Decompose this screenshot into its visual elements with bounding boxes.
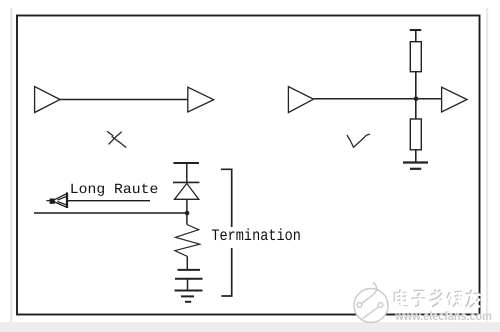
- wire resistor to capacitor: [186, 256, 188, 270]
- watermark logo: [354, 283, 388, 323]
- buffer U2 (top-left receiver): [188, 87, 214, 112]
- watermark CJK text fa: [430, 290, 444, 308]
- diode D1 triangle: [175, 183, 199, 199]
- ground (right circuit): [403, 163, 428, 169]
- buffer U3 (top-right driver): [288, 87, 313, 113]
- diode D1 cathode bar: [173, 181, 199, 183]
- capacitor C1 bottom plate: [175, 278, 203, 280]
- annotation arrow: [46, 192, 67, 208]
- svg-text:Long Raute: Long Raute: [70, 182, 159, 198]
- resistor RT zigzag: [175, 225, 200, 257]
- wire node to resistor: [186, 213, 188, 225]
- wire capacitor to ground: [187, 279, 189, 291]
- wire U1 to U2: [60, 99, 188, 101]
- node junction dot (termination): [185, 211, 190, 216]
- watermark CJK text you: [466, 290, 481, 309]
- watermark CJK text dian: [395, 289, 410, 307]
- wire R1 to node: [415, 72, 417, 99]
- watermark CJK text zi: [412, 291, 427, 308]
- right page edge line: [486, 8, 488, 322]
- termination bracket: [221, 169, 232, 296]
- svg-text:Termination: Termination: [211, 227, 301, 245]
- checkmark (correct): [347, 134, 370, 147]
- ground (termination): [175, 291, 203, 302]
- diode VCC T-bar: [174, 162, 200, 164]
- watermark CJK text shao: [447, 292, 463, 308]
- svg-text:www.elecfans.com: www.elecfans.com: [394, 309, 491, 323]
- wire node to R2: [415, 99, 417, 119]
- X mark (wrong): [107, 131, 126, 147]
- wire R2 to ground: [415, 150, 417, 163]
- long route wire: [34, 212, 187, 214]
- capacitor C1 top plate: [178, 269, 201, 271]
- buffer U1 (top-left driver): [35, 87, 60, 113]
- resistor R1 pull-up box: [410, 42, 421, 72]
- buffer U4 (top-right receiver): [442, 87, 467, 112]
- left page edge line: [10, 8, 12, 322]
- resistor R2 pull-down box: [410, 119, 421, 150]
- wire VCC to R1: [415, 30, 417, 42]
- bottom gray strip: [0, 322, 500, 332]
- VCC T-bar: [410, 29, 422, 31]
- arrow shaft wire: [68, 200, 150, 202]
- watermark url text: [394, 309, 492, 324]
- wire U3 to U4: [314, 98, 442, 100]
- wire T-bar to diode D1: [186, 163, 188, 182]
- node junction dot: [414, 97, 419, 102]
- wire diode to node: [186, 199, 188, 213]
